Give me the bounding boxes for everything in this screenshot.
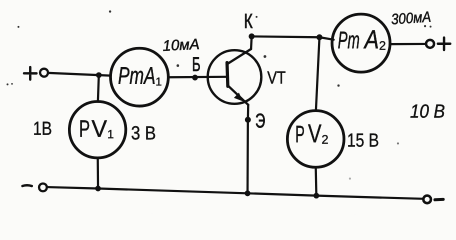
polarity - (right output) bbox=[435, 198, 443, 201]
svg-text:10 В: 10 В bbox=[410, 102, 445, 123]
wire: PV1 bottom to negative bus bbox=[97, 158, 100, 189]
svg-text:Б: Б bbox=[192, 54, 201, 76]
voltmeter PV1 bbox=[69, 101, 125, 157]
terminal: right - output bbox=[423, 196, 431, 204]
scan specks bbox=[6, 10, 431, 179]
wire: PV2 bottom to negative bus bbox=[315, 167, 318, 196]
node: junction on base wire (to PV1) bbox=[96, 72, 102, 78]
wire: collector lead to node K bbox=[250, 36, 253, 49]
svg-text:P: P bbox=[79, 116, 90, 143]
svg-text:Э: Э bbox=[255, 111, 265, 133]
svg-text:1В: 1В bbox=[33, 119, 52, 140]
wire: node to PV2 top bbox=[316, 37, 320, 111]
wire: emitter lead to bottom bus through node Э bbox=[246, 105, 249, 194]
wire: PmA1 to transistor base (through node Б) bbox=[168, 76, 227, 79]
svg-text:10мА: 10мА bbox=[162, 36, 200, 55]
terminal: left + input bbox=[40, 69, 48, 77]
svg-text:2: 2 bbox=[321, 133, 328, 147]
node К (collector) bbox=[249, 33, 255, 39]
svg-text:PmA: PmA bbox=[118, 63, 156, 90]
node Э (emitter) bbox=[245, 117, 251, 123]
svg-text:P: P bbox=[295, 121, 305, 148]
wire: left + terminal to base wire / PmA1 bbox=[48, 73, 111, 76]
terminal: left - input bbox=[39, 183, 47, 191]
ammeter PmA1 bbox=[111, 48, 169, 106]
polarity + (right output) bbox=[438, 38, 450, 51]
node: junction on top bus (to PV2) bbox=[316, 34, 322, 40]
node Б (base) bbox=[192, 75, 198, 81]
wire: bottom negative bus bbox=[46, 187, 423, 199]
voltmeter PV2 bbox=[287, 111, 344, 168]
node: bottom bus junction below PV1 bbox=[95, 186, 101, 192]
svg-text:V: V bbox=[308, 118, 322, 148]
svg-text:3 В: 3 В bbox=[131, 123, 156, 144]
svg-text:A: A bbox=[363, 24, 379, 54]
wire: node to PV1 top bbox=[97, 75, 100, 102]
node: bottom bus junction below PV2 bbox=[313, 193, 319, 199]
polarity - (left input) bbox=[22, 184, 31, 187]
svg-text:2: 2 bbox=[379, 39, 386, 53]
svg-text:1: 1 bbox=[107, 127, 114, 141]
terminal: right + output bbox=[426, 40, 434, 48]
wire: PmA2 to right + terminal bbox=[390, 43, 426, 45]
transistor VT bbox=[208, 49, 262, 105]
node: bottom bus junction below emitter bbox=[245, 190, 251, 196]
ammeter PmA2 bbox=[332, 14, 390, 72]
svg-text:Pm: Pm bbox=[338, 27, 360, 54]
svg-text:1: 1 bbox=[156, 76, 162, 88]
svg-text:VT: VT bbox=[267, 68, 286, 88]
svg-text:15 В: 15 В bbox=[347, 131, 379, 152]
svg-text:V: V bbox=[91, 116, 107, 143]
wire: top bus from node K to PmA2 bbox=[252, 36, 334, 39]
polarity + (left input) bbox=[24, 67, 37, 80]
svg-text:К: К bbox=[244, 10, 253, 33]
